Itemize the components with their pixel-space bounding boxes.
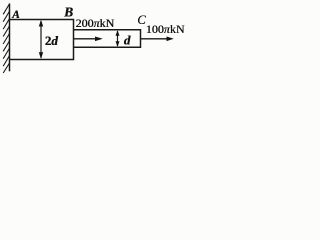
svg-text:A: A <box>11 9 20 21</box>
arrowhead 2d top <box>39 20 43 27</box>
svg-text:2d: 2d <box>45 33 59 48</box>
arrowhead 100πkN <box>167 37 174 42</box>
force arrow 100πkN shaft <box>141 38 168 40</box>
arrowhead 2d bottom <box>39 52 43 59</box>
wall hatching <box>3 4 10 74</box>
svg-text:100πkN: 100πkN <box>146 22 185 36</box>
svg-text:200πkN: 200πkN <box>76 16 115 30</box>
arrowhead d bottom <box>116 41 120 47</box>
dimension arrow d <box>117 31 119 46</box>
dimension arrow 2d <box>40 21 42 58</box>
arrowhead d top <box>116 30 120 36</box>
svg-text:B: B <box>63 5 73 20</box>
force arrow 200πkN shaft <box>74 38 97 40</box>
svg-text:d: d <box>124 33 131 48</box>
arrowhead 200πkN <box>95 37 103 42</box>
bar AB (2d segment) <box>10 20 74 60</box>
wall <box>9 4 11 72</box>
bar BC (d segment) <box>74 30 141 48</box>
